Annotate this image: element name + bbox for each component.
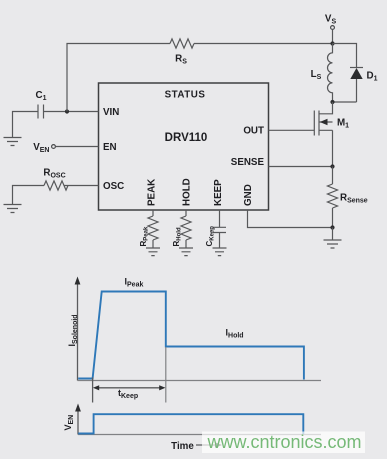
wire GND pin to ground junction (248, 210, 333, 228)
wire PEAK pin (152, 210, 154, 216)
svg-text:SENSE: SENSE (231, 157, 265, 168)
wire HOLD pin (185, 210, 187, 216)
svg-text:STATUS: STATUS (165, 90, 206, 101)
svg-text:IHold: IHold (226, 328, 244, 340)
wire junction up to top rail (67, 44, 170, 112)
watermark text (207, 432, 362, 452)
wire EN (56, 146, 99, 148)
label VEN (33, 142, 49, 154)
wire OSC left to ground (13, 186, 45, 205)
label IHold (226, 328, 244, 340)
svg-text:PEAK: PEAK (147, 179, 158, 206)
node B: VS/RS/LS/D1 junction (330, 41, 334, 45)
wire ROSC to OSC pin (64, 185, 99, 187)
label RHold (172, 227, 183, 246)
axis X top graph (78, 380, 322, 382)
svg-text:IPeak: IPeak (125, 277, 144, 289)
wire KEEP pin (219, 210, 221, 227)
label M1 (337, 118, 349, 130)
wire to RSense (332, 167, 334, 185)
ground below CKeep (213, 233, 227, 256)
resistor RSense (328, 184, 338, 208)
label D1 (367, 71, 378, 83)
svg-text:VIN: VIN (103, 107, 119, 118)
ground below RSense (324, 228, 342, 249)
time arrow (196, 442, 222, 448)
label STATUS (165, 90, 206, 101)
terminal VS (331, 26, 335, 30)
ground below RPeak (146, 240, 160, 256)
svg-text:CKeep: CKeep (205, 226, 216, 247)
node E: ground junction (330, 225, 334, 229)
ground below RHold (179, 240, 193, 256)
wire RSense to ground junction (332, 208, 334, 228)
label Time (171, 441, 194, 452)
svg-text:www.cntronics.com: www.cntronics.com (207, 432, 362, 452)
diode D1 (350, 68, 363, 103)
pin label GND (243, 184, 254, 206)
tKeep arrow (93, 385, 166, 390)
svg-text:RHold: RHold (172, 227, 183, 246)
node D: SENSE/source/RSense junction (330, 164, 334, 168)
wire VIN from C1 junction to pin (44, 111, 99, 113)
label VEN axis (63, 415, 75, 431)
label RPeak (139, 226, 150, 246)
svg-text:C1: C1 (36, 90, 47, 102)
pin label OSC (103, 181, 124, 192)
svg-text:RSense: RSense (340, 193, 368, 205)
tKeep left tick (92, 378, 94, 403)
waveform VEN (78, 414, 303, 434)
svg-text:ISolenoid: ISolenoid (67, 314, 79, 346)
label ROSC (43, 168, 65, 180)
pin label HOLD (182, 178, 193, 206)
svg-text:HOLD: HOLD (182, 178, 193, 206)
IC U1 DRV110 box (99, 83, 269, 210)
svg-text:DRV110: DRV110 (165, 132, 208, 144)
label RS (175, 54, 187, 66)
resistor RS (170, 39, 194, 48)
watermark band (202, 432, 365, 454)
wire RS to VS junction (194, 43, 333, 45)
terminal VEN (52, 145, 56, 149)
svg-text:KEEP: KEEP (213, 179, 224, 206)
svg-text:GND: GND (243, 184, 254, 206)
resistor ROSC (44, 181, 68, 190)
ground below ROSC (4, 205, 22, 213)
pin label PEAK (147, 179, 158, 206)
svg-text:LS: LS (311, 69, 322, 81)
capacitor CKeep (213, 227, 226, 232)
axis Y ISolenoid (75, 277, 81, 381)
pin label OUT (243, 126, 264, 137)
axis Y VEN (75, 404, 81, 435)
svg-text:RPeak: RPeak (139, 226, 150, 246)
waveform ISolenoid (78, 292, 304, 380)
svg-text:VS: VS (325, 14, 337, 26)
label LS (311, 69, 322, 81)
svg-text:ROSC: ROSC (43, 168, 65, 180)
svg-text:RS: RS (175, 54, 187, 66)
label CKeep (205, 226, 216, 247)
capacitor C1 (38, 105, 44, 119)
svg-text:OSC: OSC (103, 181, 124, 192)
pin label KEEP (213, 179, 224, 206)
transistor M1 (314, 111, 332, 136)
node A: VIN/C1/RS junction (65, 109, 69, 113)
label RSense (340, 193, 368, 205)
axis X bottom graph (78, 434, 321, 436)
wire M1 source down (332, 130, 334, 166)
pin label SENSE (231, 157, 265, 168)
wire OUT to gate (269, 129, 315, 131)
svg-text:VEN: VEN (33, 142, 49, 154)
wire SENSE (269, 166, 333, 168)
ground below C1 (4, 138, 22, 146)
svg-text:Time: Time (171, 441, 194, 452)
svg-text:tKeep: tKeep (118, 388, 138, 400)
wire C1 left to ground (13, 112, 39, 138)
label DRV110 (165, 132, 208, 144)
wire D1 branch top (333, 44, 357, 68)
resistor RHold (181, 216, 191, 240)
svg-text:OUT: OUT (243, 126, 264, 137)
resistor RPeak (148, 216, 158, 240)
label ISolenoid (67, 314, 79, 346)
label C1 (36, 90, 47, 102)
label IPeak (125, 277, 144, 289)
node C: LS/D1/M1 drain junction (330, 100, 334, 104)
wire M1 drain (319, 102, 333, 114)
svg-text:D1: D1 (367, 71, 378, 83)
wire D1 branch bottom (333, 101, 357, 103)
svg-text:VEN: VEN (63, 415, 75, 431)
pin label VIN (103, 107, 119, 118)
svg-text:EN: EN (103, 142, 117, 153)
label VS (325, 14, 337, 26)
label tKeep (118, 388, 138, 400)
pin label EN (103, 142, 117, 153)
inductor LS (328, 44, 333, 103)
wire VS down (332, 30, 334, 44)
tKeep right boundary line (165, 347, 167, 403)
svg-text:M1: M1 (337, 118, 349, 130)
